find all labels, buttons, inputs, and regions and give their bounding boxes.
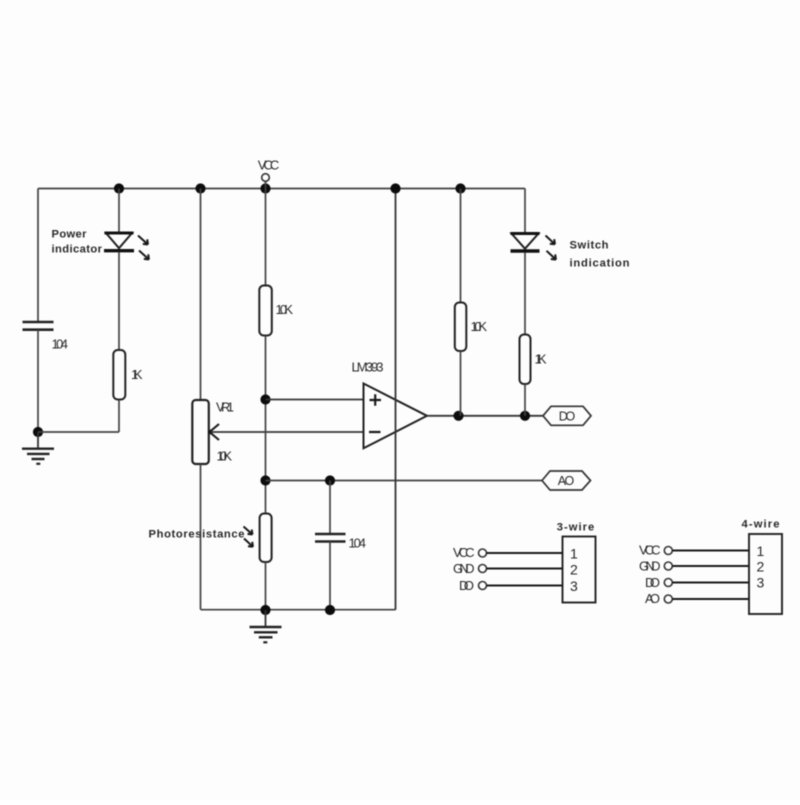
photoresistor LDR (260, 514, 272, 563)
wire bottom-left to R1 (38, 431, 119, 433)
wire R3 to output line (460, 351, 462, 416)
svg-text:4-wire: 4-wire (742, 519, 780, 531)
svg-text:Switch: Switch (570, 240, 609, 252)
svg-text:10K: 10K (276, 302, 294, 317)
wire left branch upper (37, 189, 39, 323)
wire D1 to R1 (118, 252, 120, 350)
node VCC terminal (262, 174, 270, 182)
svg-text:Photoresistance: Photoresistance (149, 529, 245, 541)
node junction bottom rail x330 (325, 605, 335, 615)
wire rail to R3 (460, 189, 462, 303)
svg-text:LM393: LM393 (352, 360, 384, 375)
wire VR1 wiper to op-amp minus input (211, 431, 364, 433)
svg-text:1K: 1K (131, 367, 143, 382)
wire R1 to bottom-left node (118, 400, 120, 433)
net tag DO (543, 406, 591, 425)
svg-text:2: 2 (570, 562, 578, 578)
svg-text:104: 104 (349, 536, 367, 551)
LED D1 power indicator (104, 233, 149, 260)
wire top VCC rail (38, 188, 525, 190)
pin AO (J2) (645, 591, 749, 606)
svg-text:VCC: VCC (639, 543, 661, 558)
svg-text:3-wire: 3-wire (557, 522, 595, 534)
pin VCC (J2) (639, 543, 749, 558)
light arrows into LDR (244, 527, 254, 547)
svg-text:3: 3 (570, 578, 578, 594)
node junction rail x119 (114, 183, 124, 193)
svg-text:VR1: VR1 (216, 400, 234, 415)
wire bottom rail (201, 609, 396, 611)
node junction bottom-left (33, 427, 43, 437)
resistor R2 10K (259, 286, 272, 336)
node junction C2 top (325, 475, 335, 485)
op-amp plus sign (370, 394, 382, 406)
svg-text:DO: DO (559, 410, 576, 424)
node junction rail x200 (195, 183, 205, 193)
pin GND (J2) (639, 558, 749, 573)
pin VCC (J1) (453, 545, 563, 560)
svg-text:AO: AO (645, 591, 660, 606)
node junction bottom rail x265 (260, 605, 270, 615)
svg-text:AO: AO (558, 474, 575, 488)
wire rail corner down to LED D2 (524, 189, 526, 234)
svg-text:1K: 1K (535, 352, 547, 367)
capacitor C2 104 (315, 534, 346, 542)
connector J2 4-wire (742, 519, 783, 615)
svg-text:DO: DO (459, 578, 474, 593)
svg-text:VCC: VCC (258, 158, 280, 173)
pin GND (J1) (453, 561, 563, 576)
node junction AO (260, 475, 270, 485)
resistor R4 1K (520, 335, 531, 385)
svg-text:104: 104 (52, 337, 69, 352)
resistor R1 1K (113, 350, 125, 400)
wire rail to VR1 (200, 189, 202, 401)
wire node to op-amp plus input (266, 399, 364, 401)
svg-text:indicator: indicator (52, 244, 103, 256)
resistor R3 10K pull-up (455, 303, 467, 352)
svg-text:1: 1 (757, 543, 765, 559)
wire op-amp output to DO (427, 415, 544, 417)
wire VR1 bottom to bottom rail (200, 464, 202, 610)
svg-text:indication: indication (570, 258, 630, 270)
node junction rail x265 (VCC) (260, 183, 270, 193)
wire VCC terminal down to R2 (265, 181, 267, 285)
wire R2 down through nodes to LDR (265, 336, 267, 514)
svg-text:VCC: VCC (453, 545, 475, 560)
pin DO (J1) (459, 578, 563, 593)
net tag AO (542, 471, 591, 490)
wire C2 top lead (329, 481, 331, 535)
node junction output x460 (453, 411, 463, 421)
svg-text:Power: Power (52, 229, 88, 241)
wire D2 to R4 (524, 253, 526, 335)
node junction rail x460 (455, 183, 465, 193)
connector J1 3-wire (557, 522, 596, 603)
pin DO (J2) (645, 575, 749, 590)
wire R4 to output line (524, 384, 526, 416)
svg-text:10K: 10K (471, 319, 488, 334)
wire power through op-amp x395 (395, 189, 397, 610)
LED D2 switch indication (511, 234, 557, 260)
svg-text:10K: 10K (217, 449, 233, 464)
ground center (250, 610, 282, 642)
wire left branch lower (37, 330, 39, 432)
node junction plus-input (260, 394, 270, 404)
op-amp minus sign (369, 431, 381, 433)
svg-text:1: 1 (570, 546, 578, 562)
capacitor C1 104 (23, 322, 54, 330)
svg-text:GND: GND (639, 558, 661, 573)
svg-text:3: 3 (757, 574, 765, 590)
svg-text:2: 2 (757, 559, 765, 575)
potentiometer VR1 10K (192, 400, 219, 464)
op-amp U1 LM393 (364, 384, 428, 449)
wire AO line (266, 480, 543, 482)
svg-text:DO: DO (645, 575, 660, 590)
wire LDR to bottom rail (265, 562, 267, 610)
wire C2 bottom lead (329, 542, 331, 611)
svg-text:GND: GND (453, 561, 475, 576)
wire rail to LED D1 (118, 189, 120, 234)
node junction output x525 (520, 411, 530, 421)
ground left (22, 432, 54, 464)
node junction rail x395 (390, 183, 400, 193)
